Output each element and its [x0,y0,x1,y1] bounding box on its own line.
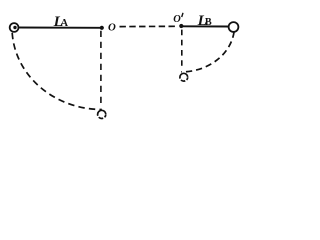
svg-text:A: A [61,18,69,29]
svg-text:O: O [173,14,181,25]
svg-text:O: O [108,21,116,33]
svg-text:B: B [205,17,212,28]
